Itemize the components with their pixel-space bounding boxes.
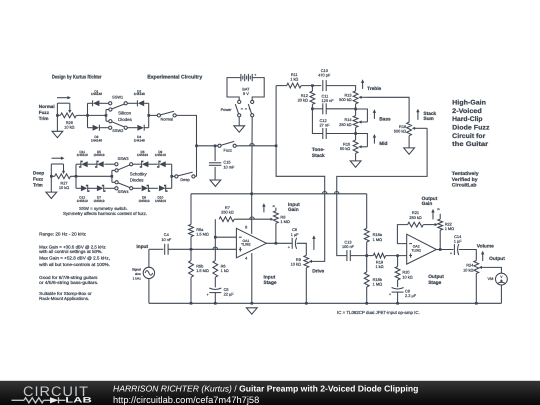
wire C4 to bias node xyxy=(168,248,236,250)
node R27 left junction xyxy=(50,175,53,178)
wire D4 to right bus xyxy=(144,127,149,129)
svg-text:1 MΩ: 1 MΩ xyxy=(373,237,382,242)
svg-text:Power: Power xyxy=(221,107,233,112)
node OA2 bias node xyxy=(365,254,368,257)
svg-text:or 4/5/6-string bass-guitars.: or 4/5/6-string bass-guitars. xyxy=(39,280,98,285)
hop bias bus over drive riser xyxy=(322,192,327,194)
wire fuzz node down to drive wiper xyxy=(276,146,325,262)
svg-text:IC = TL082CP dual JFET-input o: IC = TL082CP dual JFET-input op-amp IC. xyxy=(337,310,420,315)
svg-text:1 µF: 1 µF xyxy=(454,239,462,244)
svg-text:10 kΩ: 10 kΩ xyxy=(291,262,301,267)
svg-text:Sum: Sum xyxy=(423,116,433,122)
potentiometer R13 wiper xyxy=(361,96,367,98)
svg-text:Diodes: Diodes xyxy=(118,117,132,122)
svg-text:1N5819: 1N5819 xyxy=(138,199,149,203)
switch Fuzz contact left xyxy=(218,144,221,147)
svg-text:1N5819: 1N5819 xyxy=(77,199,88,203)
ground below C15 xyxy=(210,180,221,186)
svg-text:1N5819: 1N5819 xyxy=(155,153,166,157)
wire C15 branch xyxy=(214,146,216,161)
capacitor C5 22uF xyxy=(209,288,221,290)
logo diode xyxy=(50,397,59,403)
wire C12 row right xyxy=(326,133,355,135)
svg-text:250 kΩ: 250 kΩ xyxy=(409,215,422,220)
wire C11 row left xyxy=(312,108,322,110)
node tone chain node C xyxy=(354,108,357,111)
arrow Volume xyxy=(482,254,484,261)
svg-text:1N4148: 1N4148 xyxy=(91,92,102,96)
wire R26 wiper loop xyxy=(57,102,69,104)
wire R21 to R22 wiper xyxy=(423,224,434,226)
node silicon left bus center xyxy=(86,114,89,117)
wire SSW3 to D6 xyxy=(133,163,141,165)
resistor R5b 1.5M xyxy=(189,261,194,278)
wire SSW2 to D4 xyxy=(127,127,137,129)
resistor R21 250k xyxy=(408,222,424,227)
diode D11 1N5819 xyxy=(81,161,87,167)
node B+ bias junction xyxy=(250,193,253,196)
source signal sine 1kHz xyxy=(143,267,154,278)
wire R7 to R8 wiper xyxy=(234,218,270,220)
capacitor C11 120nF xyxy=(322,103,324,114)
svg-text:Gain: Gain xyxy=(422,201,433,207)
logo wire 2 xyxy=(44,399,50,401)
wire D6-D9 xyxy=(148,163,158,165)
potentiometer R16 wiper xyxy=(415,127,428,129)
node OA1 output junction xyxy=(275,242,278,245)
wire VM to ground bus xyxy=(500,285,502,303)
wire R27 left to ground xyxy=(50,164,52,192)
capacitor C4 10nF xyxy=(164,244,166,255)
op-amp OA2 TL062 xyxy=(407,234,437,264)
svg-text:Gain: Gain xyxy=(288,207,299,213)
diode D5 1N5819 xyxy=(97,161,103,167)
svg-text:Circuit for: Circuit for xyxy=(452,133,486,140)
switch Power gang dashes xyxy=(241,108,251,110)
switch Normal contact left xyxy=(157,114,160,117)
wire schottky left bus xyxy=(75,164,77,188)
svg-text:120 nF: 120 nF xyxy=(322,98,335,103)
svg-text:1.5 MΩ: 1.5 MΩ xyxy=(196,268,209,273)
node bus fuzz junction xyxy=(195,145,198,148)
svg-text:Drive: Drive xyxy=(312,269,324,275)
wire D11-D5 xyxy=(88,163,98,165)
svg-text:1N4148: 1N4148 xyxy=(134,139,145,143)
diode D9 1N5819 xyxy=(159,161,165,167)
capacitor C12 27nF xyxy=(322,128,324,139)
wire schottky top row a xyxy=(76,163,81,165)
wire R19 to plus node xyxy=(386,255,407,257)
switch Deep blade xyxy=(178,172,193,176)
hop fuzz row over B+ bus xyxy=(250,144,255,146)
wire D1 to SSW1 xyxy=(99,102,108,104)
wire R11 to node xyxy=(301,85,321,87)
wire R13 wiper to R16 xyxy=(367,97,409,122)
wire bias bus left drop xyxy=(190,194,192,225)
switch SSW3 blade xyxy=(118,165,130,170)
svg-text:Deep: Deep xyxy=(180,177,189,182)
switch SSW4 contact left xyxy=(115,187,118,190)
switch SSW1 blade xyxy=(112,104,124,109)
footer bar xyxy=(0,381,540,405)
wire C10 to R13 xyxy=(326,86,355,91)
node tone node A xyxy=(311,84,314,87)
svg-text:http://circuitlab.com/cefa7m47: http://circuitlab.com/cefa7m47h7j58 xyxy=(113,395,259,405)
capacitor C14 1uF xyxy=(453,244,455,255)
svg-text:Output: Output xyxy=(422,196,438,202)
potentiometer R9 wiper xyxy=(310,260,312,262)
wire schottky center tap xyxy=(76,175,112,177)
wire source to ground bus xyxy=(148,279,150,304)
wire R16 wiper to C13 xyxy=(337,128,427,255)
svg-text:Bass: Bass xyxy=(379,117,391,123)
svg-text:Fuzz: Fuzz xyxy=(39,110,50,115)
wire Normal switch to bus xyxy=(176,115,196,176)
svg-text:Hard-Clip: Hard-Clip xyxy=(452,116,482,123)
node bus OA1 gnd xyxy=(251,302,254,305)
arrow Output Gain xyxy=(432,212,434,219)
svg-text:Trim: Trim xyxy=(39,116,49,121)
diode D12 1N5819 xyxy=(81,185,87,191)
svg-text:Stack: Stack xyxy=(312,153,325,159)
potentiometer R8 Input Gain 1M xyxy=(274,211,279,224)
arrow Treble xyxy=(362,83,364,89)
wire silicon right bus xyxy=(148,103,150,127)
switch SSW2 contact pole xyxy=(109,120,112,123)
resistor R7 250k xyxy=(219,217,234,222)
switch SSW4 contact right xyxy=(130,187,133,190)
svg-text:+: + xyxy=(254,73,256,77)
switch Deep contact right xyxy=(192,175,195,178)
svg-text:1 MΩ: 1 MΩ xyxy=(445,226,454,231)
switch Fuzz blade xyxy=(221,141,234,145)
node tone node B xyxy=(311,108,314,111)
wire R24 wiper to VM xyxy=(482,267,502,273)
ground below OA1 xyxy=(246,308,257,314)
svg-text:Rack-Mount Applications.: Rack-Mount Applications. xyxy=(39,296,89,301)
switch Power pole1 blade xyxy=(235,104,238,114)
svg-text:250 kΩ: 250 kΩ xyxy=(221,210,234,215)
capacitor C10 470pF xyxy=(322,80,324,91)
node R26 left junction xyxy=(56,114,59,117)
svg-text:Normal: Normal xyxy=(39,104,55,109)
svg-text:9 V: 9 V xyxy=(243,91,249,96)
svg-text:Input: Input xyxy=(288,202,300,208)
node bus C5 xyxy=(214,302,217,305)
wire D10 to right bus xyxy=(165,187,172,189)
diode D4 1N4148 xyxy=(137,125,143,131)
wire C6 to R9 xyxy=(297,243,307,255)
svg-text:Mid: Mid xyxy=(379,141,387,147)
op-amp OA1 TL062 xyxy=(236,228,266,257)
ground below R16 xyxy=(404,148,415,154)
wire OA1 pin4 to ground bus xyxy=(251,253,253,303)
wire ground bus xyxy=(149,302,502,304)
svg-text:Fuzz: Fuzz xyxy=(223,147,231,152)
svg-text:22 µF: 22 µF xyxy=(224,292,235,297)
svg-text:Verified by: Verified by xyxy=(452,177,478,183)
resistor R5a 1.5M xyxy=(189,224,194,236)
diode D1 1N4148 xyxy=(93,100,99,106)
svg-text:Volume: Volume xyxy=(477,244,494,250)
switch SSW2 contact left xyxy=(109,126,112,129)
logo wire 3 xyxy=(59,399,66,401)
node silicon right bus center xyxy=(147,114,150,117)
ground below Power switch xyxy=(234,126,245,132)
wire input to C4 xyxy=(149,248,164,250)
wire silicon top row left xyxy=(88,102,93,104)
ground below R15 xyxy=(350,161,361,167)
svg-text:Diode Fuzz: Diode Fuzz xyxy=(452,125,490,132)
resistor R20 10k xyxy=(395,267,400,281)
switch SSW1 contact pole xyxy=(109,108,112,111)
svg-text:1.5 MΩ: 1.5 MΩ xyxy=(196,232,209,237)
svg-text:1 µF: 1 µF xyxy=(291,232,299,237)
potentiometer R14 Bass 250k xyxy=(353,116,358,128)
svg-text:VM: VM xyxy=(488,276,494,281)
svg-text:10 mF: 10 mF xyxy=(223,164,235,169)
svg-text:SSW4: SSW4 xyxy=(117,189,129,194)
wire R16 to ground xyxy=(408,136,410,148)
diode D8 1N5819 xyxy=(142,185,148,191)
svg-text:8: 8 xyxy=(245,225,247,230)
svg-text:1N5819: 1N5819 xyxy=(77,153,88,157)
logo resistor xyxy=(24,398,44,403)
wire bias bus xyxy=(191,193,367,195)
wire D5 to SSW3 xyxy=(104,163,114,165)
svg-text:Range: 20 Hz - 20 kHz: Range: 20 Hz - 20 kHz xyxy=(39,231,86,236)
voltmeter VM xyxy=(496,273,508,285)
svg-text:10 nF: 10 nF xyxy=(161,237,172,242)
potentiometer R26 wiper xyxy=(69,103,71,110)
node bus R24 xyxy=(475,302,478,305)
potentiometer R27 indicator arrow xyxy=(52,157,62,159)
svg-text:Stage: Stage xyxy=(428,280,441,286)
wire R9 to ground bus xyxy=(305,268,307,304)
wire OA2 output xyxy=(436,249,453,251)
capacitor C13 100nF xyxy=(346,250,348,261)
switch Power pole1 top contact xyxy=(238,100,241,103)
wire schottky bottom row a xyxy=(76,187,81,189)
arrow Input Gain xyxy=(263,206,265,212)
svg-text:1N5819: 1N5819 xyxy=(155,199,166,203)
wire schottky tap stub bottom xyxy=(112,181,115,183)
node minus junction xyxy=(214,236,217,239)
switch SSW3 contact right xyxy=(130,163,133,166)
svg-text:Symmetry affects harmonic cont: Symmetry affects harmonic content of fuz… xyxy=(63,211,147,216)
svg-text:Diodes: Diodes xyxy=(130,178,144,183)
switch Normal contact right xyxy=(173,114,176,117)
diode D3 1N4148 xyxy=(93,125,99,131)
svg-text:TL062: TL062 xyxy=(411,248,421,252)
wire C11 row right xyxy=(326,108,355,110)
potentiometer R24 Volume 10k xyxy=(474,261,479,274)
svg-text:with all control settings at 5: with all control settings at 50%. xyxy=(39,249,102,254)
switch SSW2 contact right xyxy=(124,126,127,129)
arrow Bass xyxy=(373,113,375,119)
capacitor C8 2.2uF xyxy=(392,288,404,290)
node schottky left bus center xyxy=(75,175,78,178)
wire R18a to node xyxy=(366,242,368,256)
svg-text:Suitable for Stomp-Box or: Suitable for Stomp-Box or xyxy=(39,291,92,296)
wire node to R19 xyxy=(367,255,374,257)
wire R11 lead xyxy=(276,85,287,87)
wire power pole1 to ground xyxy=(238,117,240,126)
node bus R5b xyxy=(190,302,193,305)
potentiometer R26 indicator arrow xyxy=(57,97,68,99)
logo wire xyxy=(12,399,25,401)
node bus R18b xyxy=(365,302,368,305)
wire D12-D7 xyxy=(88,187,98,189)
wire schottky right bus xyxy=(171,164,173,188)
svg-text:Normal: Normal xyxy=(161,116,174,121)
wire SSW1 to D2 xyxy=(127,102,137,104)
wire diode bus to Fuzz switch xyxy=(197,145,218,147)
svg-text:10 kΩ: 10 kΩ xyxy=(64,125,74,130)
wire tone input riser xyxy=(275,86,277,146)
svg-text:500 kΩ: 500 kΩ xyxy=(339,97,352,102)
wire C5 to ground bus xyxy=(214,293,216,304)
wire node B down to C12 xyxy=(312,109,322,134)
svg-text:Output: Output xyxy=(428,274,444,280)
potentiometer R22 wiper arrowhead xyxy=(435,223,438,226)
svg-text:470 pF: 470 pF xyxy=(318,73,331,78)
resistor R6 1k xyxy=(213,261,218,278)
potentiometer R16 Stack Sum 500k xyxy=(407,122,412,136)
svg-text:Signal: Signal xyxy=(132,267,141,271)
wire OA1 minus lead xyxy=(215,236,236,238)
diode D7 1N5819 xyxy=(97,185,103,191)
svg-text:Tone-: Tone- xyxy=(312,147,325,153)
wire battery left lead xyxy=(227,78,241,101)
wire D3 to SSW2 xyxy=(99,127,108,129)
switch Power pole2 bottom contact xyxy=(251,114,254,117)
hop R7 row over B+ xyxy=(250,217,255,219)
switch SSW1 contact right xyxy=(124,102,127,105)
wire OA2 minus chain xyxy=(397,225,407,244)
resistor R12 20k xyxy=(310,91,315,104)
potentiometer R13 Treble 500k xyxy=(353,91,358,104)
svg-text:Treble: Treble xyxy=(367,86,381,92)
wire C8 to ground bus xyxy=(397,292,399,303)
svg-text:2-Voiced: 2-Voiced xyxy=(452,108,482,115)
diode D2 1N4148 xyxy=(138,100,144,106)
node silicon tap junction xyxy=(105,114,108,117)
capacitor C15 xyxy=(209,162,221,164)
wire silicon bottom row left xyxy=(88,127,93,129)
svg-text:1 kΩ: 1 kΩ xyxy=(221,268,229,273)
wire R13 to R14 xyxy=(355,104,357,116)
switch SSW2 blade xyxy=(112,122,124,127)
wire R14 wiper loop xyxy=(356,109,368,122)
svg-text:Fuzz: Fuzz xyxy=(33,176,44,181)
switch SSW4 contact pole xyxy=(115,181,118,184)
diode D6 1N5819 xyxy=(142,161,148,167)
node bus R9 xyxy=(305,302,308,305)
potentiometer R9 Drive 10k xyxy=(304,255,309,267)
svg-text:10 kΩ: 10 kΩ xyxy=(402,274,412,279)
wire to Normal switch xyxy=(149,114,158,116)
capacitor C6 1uF xyxy=(291,238,293,249)
wire D9 to right bus xyxy=(165,163,172,165)
hop bias bus over tone out riser xyxy=(334,192,339,194)
wire R15 to ground xyxy=(355,153,357,161)
diode D10 1N5819 xyxy=(159,185,165,191)
wire schottky tap stub top xyxy=(112,169,115,171)
potentiometer R14 wiper xyxy=(361,121,367,123)
wire silicon center tap xyxy=(88,114,107,116)
wire battery right lead xyxy=(252,78,264,101)
wire R6 to C5 xyxy=(214,277,216,287)
hop input row over minus chain xyxy=(213,247,218,249)
svg-text:1 MΩ: 1 MΩ xyxy=(280,219,289,224)
node input bias junction xyxy=(190,248,193,251)
svg-text:10 kΩ: 10 kΩ xyxy=(59,185,69,190)
node schottky tap junction xyxy=(111,175,114,178)
svg-text:LAB: LAB xyxy=(65,396,92,405)
switch Deep contact left xyxy=(175,175,178,178)
wire Fuzz switch to tone input xyxy=(236,145,276,147)
node OA2 output junction xyxy=(439,248,442,251)
switch Fuzz contact right xyxy=(233,144,236,147)
svg-text:HARRISON RICHTER (Kurtus) / Gu: HARRISON RICHTER (Kurtus) / Guitar Pream… xyxy=(113,384,418,394)
wire D2 to right bus xyxy=(144,102,149,104)
switch SSW1 contact left xyxy=(109,102,112,105)
arrow Drive xyxy=(313,239,315,250)
potentiometer R27 xyxy=(55,174,71,179)
wire bias bus right drop xyxy=(366,194,368,229)
svg-text:SSW2: SSW2 xyxy=(112,128,123,133)
node C15 tap xyxy=(214,145,217,148)
wire silicon left bus xyxy=(87,103,89,127)
node bus C8 xyxy=(396,302,399,305)
svg-text:1N4148: 1N4148 xyxy=(134,92,145,96)
svg-text:Output: Output xyxy=(489,256,505,262)
svg-text:SSW3: SSW3 xyxy=(117,156,128,161)
svg-text:with all but tone-controls at: with all but tone-controls at 100%. xyxy=(39,262,110,267)
potentiometer R15 wiper xyxy=(361,146,367,148)
svg-text:Trim: Trim xyxy=(33,182,43,187)
potentiometer R26 xyxy=(60,113,76,118)
svg-text:SSW1: SSW1 xyxy=(112,95,123,100)
svg-text:Stack: Stack xyxy=(423,111,436,117)
resistor R18a 1M xyxy=(364,228,369,242)
node tone input junction xyxy=(275,145,278,148)
svg-text:50 kΩ: 50 kΩ xyxy=(340,146,350,151)
svg-text:Max Gain = +52.8 dBV @ 2.5 kHz: Max Gain = +52.8 dBV @ 2.5 kHz, xyxy=(39,256,110,261)
wire C14 to R24 xyxy=(459,250,477,261)
svg-text:1N5819: 1N5819 xyxy=(93,199,104,203)
wire Deep switch to bus xyxy=(195,175,197,177)
svg-text:1 kHz: 1 kHz xyxy=(133,276,142,280)
wire OA1 output xyxy=(266,242,291,244)
svg-text:Deep: Deep xyxy=(33,170,44,175)
resistor R19 1k xyxy=(373,253,385,258)
potentiometer R15 Mid 50k xyxy=(353,140,358,153)
svg-text:Stage: Stage xyxy=(264,280,277,286)
switch Power pole2 blade xyxy=(248,104,251,114)
svg-text:Schottky: Schottky xyxy=(130,171,148,176)
wire B+ bus xyxy=(251,117,254,234)
wire R5a to input node xyxy=(190,237,192,250)
wire R24 to ground bus xyxy=(475,274,477,304)
svg-text:1N4148: 1N4148 xyxy=(91,139,102,143)
wire tap stub bottom xyxy=(106,120,109,122)
svg-text:10 kΩ: 10 kΩ xyxy=(463,267,473,272)
svg-text:Design by Kurtus Richter: Design by Kurtus Richter xyxy=(52,74,102,80)
wire SSW4 to D8 xyxy=(133,187,141,189)
svg-text:250 kΩ: 250 kΩ xyxy=(339,122,352,127)
